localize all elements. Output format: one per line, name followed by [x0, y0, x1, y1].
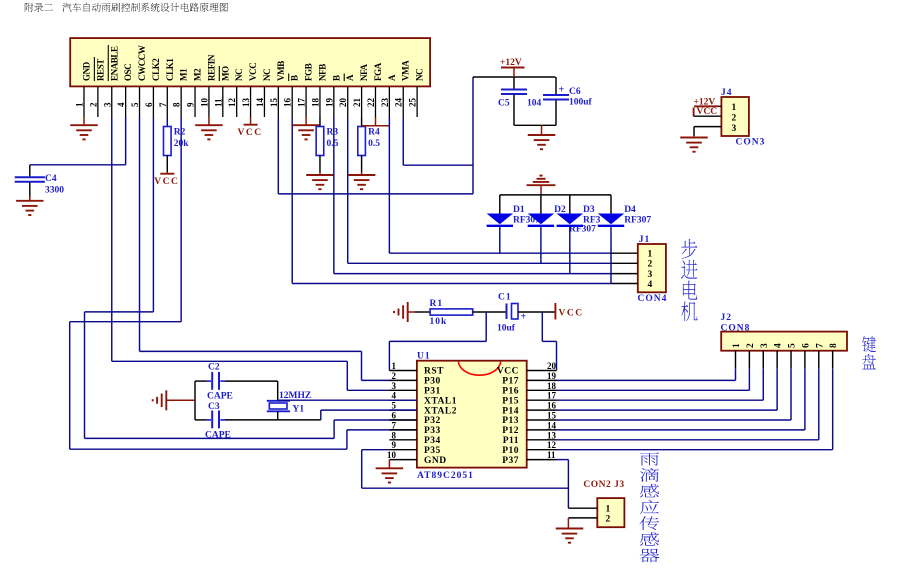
wire into U1 P31 [347, 389, 390, 391]
U1 pin 19 P17 stub [527, 379, 557, 381]
label keyboard 键盘 [862, 336, 876, 352]
svg-text:XTAL1: XTAL1 [424, 396, 457, 406]
svg-text:U1: U1 [417, 352, 431, 362]
svg-text:C3: C3 [208, 402, 220, 412]
capacitor C2 [195, 380, 207, 382]
J2 pin 4 wire down [776, 368, 778, 410]
svg-text:8: 8 [172, 102, 182, 107]
header pin 1 stub and number [83, 86, 85, 117]
wire header pin5 CWCCW down [139, 117, 141, 351]
svg-text:4: 4 [116, 102, 126, 107]
svg-text:24: 24 [394, 98, 404, 108]
svg-text:CAPE: CAPE [205, 431, 231, 441]
wire pin15 to +12V rail [278, 193, 473, 195]
wire pin17 to R3 top [306, 124, 320, 126]
svg-text:13: 13 [241, 98, 251, 108]
header pin 23 stub and number [388, 86, 390, 117]
J2 pin 3 stub [762, 351, 764, 369]
ground at header pin 10 REFIN [208, 117, 210, 125]
wire header pin22 NFA stub [374, 117, 376, 126]
diode D1 [499, 195, 501, 214]
U1 pin 1 RST stub [389, 370, 417, 372]
svg-text:Y1: Y1 [293, 405, 305, 415]
svg-text:P13: P13 [502, 416, 519, 426]
U1 pin 10 GND stub [389, 459, 417, 461]
U1 pin 5 XTAL2 stub [389, 409, 417, 411]
wire crystal to XTAL1 [278, 399, 417, 401]
wire C5 C6 bottom [514, 124, 556, 126]
svg-text:+: + [521, 312, 527, 323]
svg-text:R3: R3 [326, 128, 338, 138]
svg-text:3: 3 [392, 381, 397, 391]
wire J2 pin 7 to U1 [557, 439, 819, 441]
U1 notch [458, 362, 500, 376]
header pin 21 stub and number [361, 86, 363, 117]
wire pin8 bottom horizontal [70, 448, 347, 450]
wire into U1 P33 [347, 429, 417, 431]
U1 pin 2 P30 stub [389, 379, 417, 381]
wire header pin15 VMB down [277, 117, 279, 194]
wire R2 to VCC [166, 156, 168, 173]
wire C1 to VCC [518, 311, 555, 313]
label stepper motor 步进电机 [681, 239, 697, 259]
J2 pin 8 wire down [832, 368, 834, 450]
svg-text:4: 4 [648, 280, 653, 290]
svg-text:P15: P15 [502, 396, 519, 406]
svg-text:7: 7 [815, 343, 825, 348]
svg-text:12: 12 [227, 98, 237, 108]
J2 pin 2 wire down [748, 368, 750, 390]
connector J1 box [638, 244, 666, 292]
svg-text:18: 18 [547, 381, 557, 391]
wire P35 tap down [361, 450, 363, 489]
label rain sensor 雨滴感应传感器 [640, 452, 659, 465]
wire header pin23 A down [388, 117, 390, 253]
wire pin24 to +12V rail [403, 164, 473, 166]
diode D3 [569, 195, 571, 214]
header pin 8 stub and number [180, 86, 182, 117]
header pin 11 stub and number [222, 86, 224, 117]
J4 pin 1 wire [694, 105, 721, 107]
svg-text:1: 1 [648, 250, 653, 260]
svg-text:VCC: VCC [248, 63, 258, 81]
svg-text:REST: REST [95, 59, 105, 81]
svg-text:P34: P34 [424, 436, 441, 446]
svg-text:10k: 10k [430, 317, 448, 327]
capacitor C1 (polarized) [506, 304, 508, 320]
ground at header pin 1 (GND) [83, 117, 85, 125]
J1 pin 3 wire [611, 273, 638, 275]
wire header pin8 CLK1 down [180, 117, 182, 322]
svg-text:1: 1 [606, 505, 611, 515]
svg-text:ENABLE: ENABLE [109, 46, 119, 81]
svg-text:2: 2 [732, 114, 737, 124]
ic U1 box [417, 361, 527, 468]
wire C2 C3 left vertical [194, 381, 196, 420]
svg-text:14: 14 [255, 98, 265, 108]
svg-text:RST: RST [424, 367, 444, 377]
svg-text:MO: MO [220, 66, 230, 81]
ground at J4 pin 3 [680, 137, 708, 139]
svg-text:2: 2 [648, 260, 653, 270]
svg-text:VCC: VCC [238, 128, 263, 138]
U1 pin 7 P33 stub [389, 429, 417, 431]
wire pin22 to R4 top and pin23 net [362, 125, 390, 127]
header pin 3 stub and number [111, 86, 113, 117]
wire RST route horizontal [389, 340, 486, 342]
svg-text:5: 5 [130, 102, 140, 107]
svg-text:NC: NC [234, 69, 244, 81]
svg-text:3: 3 [732, 124, 737, 134]
svg-text:B: B [331, 75, 341, 81]
header pin 18 stub and number [319, 86, 321, 117]
ground at C4 [29, 196, 31, 201]
wire header pin6 CLK2 down [152, 117, 154, 312]
J2 pin 2 stub [748, 351, 750, 369]
svg-text:4: 4 [392, 391, 397, 401]
svg-text:GND: GND [82, 61, 92, 81]
wire junction down to U1 VCC route [541, 312, 543, 341]
svg-text:7: 7 [158, 102, 168, 107]
resistor R2 [166, 117, 168, 127]
svg-text:100uf: 100uf [569, 98, 593, 108]
svg-text:1: 1 [732, 103, 737, 113]
header pin 17 stub and number [305, 86, 307, 117]
wire pin5 vertical into P30 row [361, 351, 363, 380]
svg-text:P16: P16 [502, 387, 519, 397]
svg-text:P17: P17 [502, 377, 519, 387]
svg-text:D4: D4 [624, 205, 636, 215]
wire J2 pin 1 to U1 [557, 379, 736, 381]
J2 pin 3 wire down [762, 368, 764, 400]
svg-text:5: 5 [392, 401, 397, 411]
ground at J3 pin 2 [567, 518, 569, 529]
wire J2 pin 5 to U1 [557, 419, 792, 421]
svg-text:C4: C4 [45, 174, 57, 184]
svg-text:P10: P10 [502, 446, 519, 456]
svg-text:2: 2 [392, 371, 397, 381]
svg-text:FGA: FGA [373, 62, 383, 81]
J1 pin 1 wire [611, 252, 638, 254]
svg-text:NFA: NFA [359, 63, 369, 81]
header pin 12 stub and number [236, 86, 238, 117]
wire pin6 rise to P32 row [333, 420, 335, 438]
svg-text:FGB: FGB [304, 63, 314, 81]
svg-text:20: 20 [547, 361, 557, 371]
svg-text:REFIN: REFIN [206, 54, 216, 81]
wire pin8 rise to P33 row [346, 430, 348, 449]
ground at header pin 17 FGB [305, 117, 307, 125]
capacitor C6 (polarized) [555, 77, 557, 94]
diode D4 [610, 195, 612, 214]
svg-text:CLK1: CLK1 [165, 58, 175, 81]
ground below R3 [306, 174, 334, 176]
svg-text:R1: R1 [430, 299, 444, 309]
header pin 13 stub and number [250, 86, 252, 117]
svg-text:B: B [290, 75, 300, 81]
svg-text:NC: NC [262, 69, 272, 81]
svg-text:104: 104 [527, 99, 542, 109]
J2 pin 1 stub [735, 351, 737, 369]
wire pin6 bottom horizontal [85, 437, 335, 439]
J2 pin 5 wire down [790, 368, 792, 420]
svg-text:11: 11 [213, 98, 223, 107]
wire +12V vertical rail [472, 77, 474, 194]
svg-text:9: 9 [392, 440, 397, 450]
resistor R3 [319, 117, 321, 127]
svg-text:D1: D1 [513, 205, 525, 215]
J2 pin 4 stub [776, 351, 778, 369]
wire into U1 P30 [362, 379, 391, 381]
U1 pin 12 P10 stub [527, 449, 557, 451]
wire bottom bus to J3 [362, 487, 569, 489]
wire header pin24 VMA down [402, 117, 404, 165]
wire C4 horizontal [30, 164, 126, 166]
wire diode D4 to J1 row [610, 227, 612, 284]
svg-text:11: 11 [547, 450, 556, 460]
U1 pin 3 P31 stub [389, 389, 417, 391]
svg-text:17: 17 [547, 391, 557, 401]
svg-text:GND: GND [424, 456, 447, 466]
header pin 14 stub and number [263, 86, 265, 117]
header pin 16 stub and number [291, 86, 293, 117]
svg-text:10: 10 [199, 98, 209, 108]
wire VCC route vertical [556, 341, 558, 370]
svg-text:AT89C2051: AT89C2051 [417, 471, 474, 481]
connector J4 box [721, 97, 749, 136]
svg-text:17: 17 [297, 98, 307, 108]
svg-text:CLK2: CLK2 [151, 58, 161, 81]
svg-text:RF307: RF307 [624, 216, 651, 226]
wire diode D2 to J1 row [540, 227, 542, 263]
header pin 24 stub and number [402, 86, 404, 117]
net motor phase B- to J1 pin4 [292, 283, 611, 285]
svg-text:C2: C2 [208, 363, 220, 373]
svg-text:0.5: 0.5 [368, 139, 380, 149]
U1 pin 9 P35 stub [389, 449, 417, 451]
ground at U1 GND pin [388, 460, 390, 469]
svg-text:15: 15 [547, 411, 557, 421]
J1 pin 2 wire [611, 262, 638, 264]
resistor R4 [361, 117, 363, 127]
U1 pin 15 P13 stub [527, 419, 557, 421]
svg-text:NC: NC [415, 69, 425, 81]
U1 pin 18 P16 stub [527, 389, 557, 391]
svg-text:P11: P11 [503, 436, 519, 446]
svg-text:VMB: VMB [276, 61, 286, 81]
connector J3 box [597, 498, 624, 527]
capacitor C4 [29, 165, 31, 177]
svg-text:M2: M2 [193, 68, 203, 81]
svg-text:0.5: 0.5 [326, 139, 338, 149]
wire ground to caps [166, 399, 195, 401]
svg-text:P37: P37 [502, 456, 519, 466]
header pin 22 stub and number [374, 86, 376, 117]
header pin 4 stub and number [125, 86, 127, 117]
svg-text:22: 22 [366, 98, 376, 108]
connector header box (25-pin driver) [70, 38, 430, 86]
U1 pin 20 VCC stub [527, 370, 557, 372]
wire J2 pin 2 to U1 [557, 389, 750, 391]
J3 pin 2 wire [568, 517, 597, 519]
wire diode top bus [500, 194, 611, 196]
J2 pin 6 stub [804, 351, 806, 369]
header pin 6 stub and number [152, 86, 154, 117]
J2 pin 7 wire down [818, 368, 820, 440]
svg-text:XTAL2: XTAL2 [424, 406, 457, 416]
power VCC right of C1 [554, 303, 556, 320]
wire VCC route horizontal [542, 340, 556, 342]
wire pin5 horizontal to U1 P30 [140, 350, 362, 352]
svg-text:CON4: CON4 [638, 294, 668, 304]
wire R1 to C1 [473, 311, 507, 313]
J2 pin 1 wire down [735, 368, 737, 380]
svg-text:R4: R4 [368, 128, 380, 138]
svg-text:C5: C5 [498, 99, 510, 109]
svg-text:CWCCW: CWCCW [137, 45, 147, 81]
svg-text:16: 16 [547, 401, 557, 411]
net motor phase A- to J1 pin2 [348, 262, 611, 264]
svg-text:P32: P32 [424, 416, 441, 426]
svg-text:19: 19 [324, 98, 334, 108]
wire J2 pin 6 to U1 [557, 429, 805, 431]
J4 pin 2 wire [694, 115, 722, 117]
svg-text:19: 19 [547, 371, 557, 381]
net motor phase A to J1 pin1 [389, 252, 611, 254]
svg-text:18: 18 [310, 98, 320, 108]
J1 pin 4 wire [611, 283, 638, 285]
svg-text:P35: P35 [424, 446, 441, 456]
svg-text:9: 9 [186, 102, 196, 107]
svg-text:P14: P14 [502, 406, 519, 416]
wire header pin16 B- down [291, 117, 293, 284]
power VCC at J4 pin2 [693, 108, 695, 117]
wire junction down to RST route [485, 312, 487, 341]
wire J2 pin 4 to U1 [557, 409, 778, 411]
svg-text:P30: P30 [424, 377, 441, 387]
wire C3 line to XTAL2 riser [278, 419, 321, 421]
svg-text:1: 1 [392, 361, 397, 371]
svg-text:D3: D3 [583, 205, 595, 215]
wire C3 line rise to XTAL2 [320, 410, 322, 420]
svg-text:A: A [387, 74, 397, 81]
diode D2 [540, 195, 542, 214]
U1 pin 13 P11 stub [527, 439, 557, 441]
wire into XTAL2 [321, 409, 417, 411]
svg-text:3: 3 [102, 102, 112, 107]
svg-text:8: 8 [829, 343, 839, 348]
wire into U1 P32 [334, 419, 417, 421]
wire R4 to ground [361, 156, 363, 173]
wire ground to R1 [408, 311, 415, 313]
svg-text:R2: R2 [174, 128, 186, 138]
svg-text:7: 7 [392, 420, 397, 430]
crystal Y1 [277, 381, 279, 400]
power VCC at header pin 13 [250, 117, 252, 125]
svg-text:10: 10 [387, 450, 397, 460]
svg-text:14: 14 [547, 420, 557, 430]
J2 pin 6 wire down [804, 368, 806, 430]
svg-text:A: A [345, 74, 355, 81]
wire RST route vertical [388, 341, 390, 370]
connector J2 box [721, 332, 847, 351]
svg-text:VCC: VCC [154, 177, 179, 187]
svg-text:C6: C6 [569, 87, 581, 97]
wire header pin19 B down [333, 117, 335, 274]
svg-text:15: 15 [269, 98, 279, 108]
svg-text:10uf: 10uf [497, 324, 516, 334]
resistor R1 [430, 309, 473, 315]
svg-text:25: 25 [408, 98, 418, 108]
wire header pin3 ENABLE down [111, 117, 113, 361]
U1 pin 17 P15 stub [527, 399, 557, 401]
wire pin3 vertical into P31 row [346, 361, 348, 390]
ground (inverted) above diode bus [527, 184, 556, 186]
power VCC below R2 [160, 173, 174, 175]
wire J2 pin 8 to U1 [557, 449, 833, 451]
svg-text:P12: P12 [502, 426, 519, 436]
header pin 19 stub and number [333, 86, 335, 117]
svg-text:M1: M1 [179, 68, 189, 81]
svg-text:12MHZ: 12MHZ [279, 391, 311, 401]
J2 pin 7 stub [818, 351, 820, 369]
svg-text:20: 20 [338, 98, 348, 108]
svg-text:CON2 J3: CON2 J3 [583, 480, 624, 490]
ground below C5 C6 [541, 125, 543, 135]
wire pin6 left jog [85, 311, 154, 313]
svg-text:5: 5 [788, 343, 798, 348]
J3 pin 1 wire [568, 507, 597, 509]
wire P37 down to J3 [567, 460, 569, 509]
svg-text:23: 23 [380, 98, 390, 108]
wire +12V top rail [473, 76, 555, 78]
svg-text:J2: J2 [721, 313, 733, 323]
U1 pin 8 P34 stub [389, 439, 417, 441]
svg-text:P33: P33 [424, 426, 441, 436]
wire J4 pin3 to ground [693, 127, 695, 137]
header pin 25 stub and number [416, 86, 418, 117]
wire diode D1 to J1 row [499, 227, 501, 253]
capacitor C5 [513, 77, 515, 89]
wire pin3 horizontal to U1 P31 [112, 360, 348, 362]
svg-text:21: 21 [352, 98, 362, 108]
U1 pin 4 XTAL1 stub [389, 399, 417, 401]
svg-text:4: 4 [774, 343, 784, 348]
U1 pin 16 P14 stub [527, 409, 557, 411]
wire diode D3 to J1 row [569, 227, 571, 274]
header pin 9 stub and number [194, 86, 196, 117]
header pin 10 stub and number [208, 86, 210, 117]
net motor phase B to J1 pin3 [334, 273, 611, 275]
ground below R4 [348, 174, 376, 176]
svg-text:16: 16 [283, 98, 293, 108]
svg-text:P31: P31 [424, 387, 441, 397]
svg-text:1: 1 [732, 343, 742, 348]
svg-text:2: 2 [746, 343, 756, 348]
svg-text:6: 6 [144, 102, 154, 107]
svg-text:2: 2 [88, 102, 98, 107]
svg-text:C1: C1 [498, 293, 512, 303]
wire header pin20 A- down [347, 117, 349, 263]
svg-text:1: 1 [75, 102, 85, 107]
svg-text:VCC: VCC [497, 367, 519, 377]
svg-text:VCC: VCC [559, 309, 584, 319]
title text 附录二 汽车自动雨刷控制系统设计电路原理图 [25, 3, 34, 12]
ground (rotated) left of C2 C3 [165, 390, 167, 410]
capacitor C3 [195, 419, 207, 421]
ground (rotated) left of R1 [407, 302, 409, 322]
svg-text:NFB: NFB [317, 64, 327, 81]
